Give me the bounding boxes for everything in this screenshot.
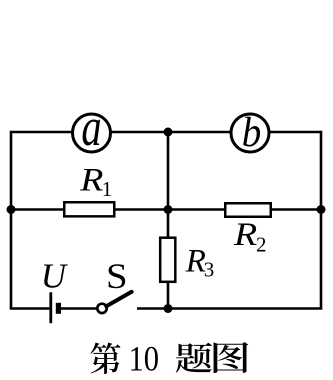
- svg-text:U: U: [41, 257, 69, 296]
- svg-text:2: 2: [256, 233, 267, 257]
- ammeter b (circle): [231, 114, 269, 152]
- svg-text:a: a: [81, 97, 101, 157]
- wire: bottom left segment to battery: [10, 307, 50, 310]
- wire: left side of loop: [10, 131, 13, 309]
- wire: top side of loop: [11, 131, 321, 134]
- junction node: right middle: [317, 205, 326, 214]
- wire: switch to right segment: [137, 307, 322, 310]
- wire: battery to switch segment: [61, 307, 97, 310]
- svg-text:R: R: [185, 243, 206, 279]
- junction node: bottom middle: [164, 304, 173, 313]
- wire: middle vertical branch: [167, 132, 170, 309]
- junction node: left middle: [7, 205, 16, 214]
- caption char 第: [91, 343, 121, 374]
- svg-text:b: b: [242, 109, 262, 156]
- caption char 图: [214, 342, 249, 373]
- wire: right side of loop: [320, 131, 323, 309]
- svg-text:R: R: [233, 215, 258, 252]
- switch S: lever: [106, 292, 131, 306]
- svg-text:10: 10: [128, 339, 159, 379]
- resistor R3 (box): [160, 238, 175, 282]
- junction node: top middle: [164, 128, 173, 137]
- junction node: center middle: [164, 205, 173, 214]
- resistor R1 (box): [64, 202, 114, 216]
- svg-text:3: 3: [204, 257, 215, 281]
- svg-text:S: S: [106, 257, 128, 296]
- battery U: short thick plate: [56, 303, 61, 314]
- svg-text:1: 1: [102, 177, 113, 201]
- wire: middle horizontal branch: [11, 208, 321, 211]
- ammeter a (circle): [73, 114, 111, 152]
- battery U: long plate: [49, 292, 52, 323]
- switch S: pivot circle: [97, 304, 106, 313]
- caption char 题: [176, 343, 212, 373]
- resistor R2 (box): [225, 203, 271, 217]
- svg-text:R: R: [79, 161, 104, 198]
